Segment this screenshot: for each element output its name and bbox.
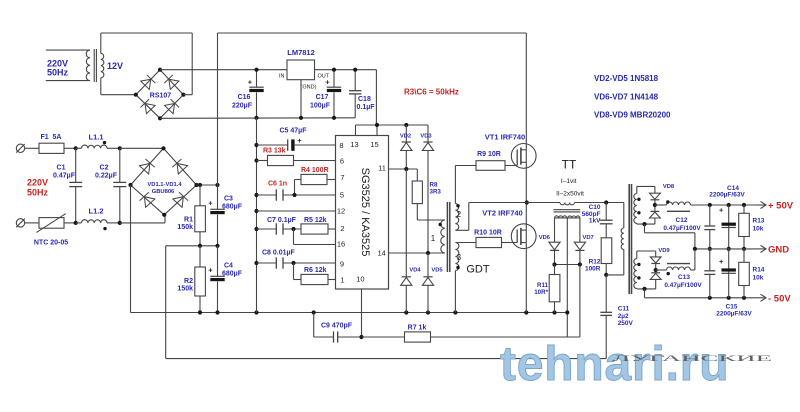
wire T1 secondary top loop xyxy=(100,33,102,53)
resistor R9 10R xyxy=(476,161,505,171)
svg-text:9: 9 xyxy=(340,260,344,269)
svg-text:R10 10R: R10 10R xyxy=(474,230,502,237)
main transformer primary coil xyxy=(621,228,624,249)
svg-text:LM7812: LM7812 xyxy=(287,48,315,57)
node C3-C4 midpoint xyxy=(166,245,218,247)
transistor VT1 IRF740 xyxy=(511,144,536,169)
svg-text:50Hz: 50Hz xyxy=(27,188,49,198)
svg-text:8: 8 xyxy=(339,141,343,150)
svg-text:VD5: VD5 xyxy=(431,268,443,274)
capacitor C17 100uF xyxy=(333,70,335,88)
svg-text:100µF: 100µF xyxy=(310,103,331,110)
wire winding3 bottom to rail xyxy=(454,271,456,313)
svg-text:C4: C4 xyxy=(224,263,233,270)
svg-text:VD8: VD8 xyxy=(663,184,675,190)
svg-text:0.1µF: 0.1µF xyxy=(357,104,376,111)
wire VT2 drain to midpoint xyxy=(525,203,527,224)
svg-text:C11: C11 xyxy=(618,306,630,313)
wire lower winding bottom lead xyxy=(636,288,638,290)
resistor R13 10k xyxy=(743,205,745,213)
wire pin14 line xyxy=(389,252,445,254)
wire T1 secondary bottom xyxy=(100,78,102,95)
svg-text:220V: 220V xyxy=(27,178,48,188)
resistor R5 12k xyxy=(301,224,328,234)
svg-text:+: + xyxy=(719,257,724,266)
svg-text:C8 0.01µF: C8 0.01µF xyxy=(262,250,296,257)
svg-text:F1 5A: F1 5A xyxy=(40,134,61,141)
svg-text:15: 15 xyxy=(370,140,378,149)
wire VT1 source to midpoint xyxy=(525,168,527,202)
svg-text:1: 1 xyxy=(431,234,436,243)
svg-text:6: 6 xyxy=(340,157,344,166)
svg-text:2200µF/63V: 2200µF/63V xyxy=(716,311,752,318)
svg-text:12V: 12V xyxy=(107,61,123,71)
wire midpoint right xyxy=(527,202,560,204)
wire minus50 rail xyxy=(644,289,646,298)
regulator U2 LM7812 xyxy=(287,60,315,80)
thermistor NTC 20-05 xyxy=(39,218,64,229)
diode VD7 xyxy=(574,242,585,250)
TT primary winding xyxy=(560,203,575,205)
diode VD2 xyxy=(405,125,407,142)
capacitor C4 680uF xyxy=(217,246,219,276)
wire VT2 source to rail xyxy=(525,249,527,313)
diode VD6 xyxy=(549,242,560,250)
wire top rail xyxy=(218,32,527,34)
wire GBU minus down xyxy=(130,185,132,313)
svg-text:C2: C2 xyxy=(100,165,109,172)
transistor VT2 IRF740 xyxy=(511,224,536,249)
main transformer primary lead xyxy=(623,203,625,229)
bridge RS107 corner dots xyxy=(158,68,162,72)
bridge RS107 diamond xyxy=(136,70,160,95)
svg-text:- 50V: - 50V xyxy=(768,294,791,305)
svg-text:VD7: VD7 xyxy=(583,235,594,241)
svg-text:5: 5 xyxy=(340,191,344,200)
arrow GND xyxy=(756,248,766,250)
resistor R14 10k xyxy=(743,249,745,262)
svg-text:C16: C16 xyxy=(238,94,251,101)
main transformer core xyxy=(628,184,630,294)
svg-text:R5 12k: R5 12k xyxy=(304,217,327,224)
svg-text:R2: R2 xyxy=(184,278,193,285)
resistor R2 150k xyxy=(199,246,201,267)
wire pin12 to bus xyxy=(254,209,258,213)
choke upper xyxy=(655,204,667,206)
svg-text:0.47µF/100V: 0.47µF/100V xyxy=(664,282,702,289)
wire Vcc line xyxy=(356,124,429,126)
svg-text:C13: C13 xyxy=(678,274,690,281)
wire lower winding top lead xyxy=(636,251,638,259)
svg-text:VD2-VD5 1N5818: VD2-VD5 1N5818 xyxy=(594,74,659,83)
resistor R12 100R xyxy=(601,238,612,264)
svg-text:VD1.1-VD1.4: VD1.1-VD1.4 xyxy=(147,182,182,188)
svg-text:ЛУГАНСКИЕ: ЛУГАНСКИЕ xyxy=(612,354,772,363)
svg-text:+: + xyxy=(208,266,213,275)
wire pin15 stub xyxy=(376,125,378,136)
svg-text:GND: GND xyxy=(768,245,789,256)
arrow plus50 xyxy=(756,204,766,206)
wire aux ground bus xyxy=(160,117,355,120)
wire Vcc drop to IC xyxy=(375,70,377,125)
wire VD6-VD7 junction xyxy=(555,264,580,266)
wire primary negative rail xyxy=(131,312,568,314)
wire C11 return riser xyxy=(165,246,167,359)
svg-text:GBU806: GBU806 xyxy=(152,189,175,195)
wire LM7812 GND lead xyxy=(300,80,302,118)
svg-text:50Hz: 50Hz xyxy=(47,68,69,78)
capacitor C16 220uF xyxy=(256,70,258,88)
svg-text:II–2x50vit: II–2x50vit xyxy=(556,191,584,198)
svg-text:150k: 150k xyxy=(177,224,193,231)
svg-text:0.47µF/100V: 0.47µF/100V xyxy=(663,225,701,232)
bridge RS107 diode bottom-left xyxy=(145,104,155,114)
svg-text:VD6: VD6 xyxy=(539,235,551,241)
diode VD8 upper xyxy=(650,193,661,199)
GDT winding 3 xyxy=(455,243,459,271)
bridge VD1 corner dots xyxy=(161,146,165,150)
svg-text:C7 0.1µF: C7 0.1µF xyxy=(267,217,297,224)
resistor R10 10R xyxy=(476,237,502,247)
capacitor C13 0.47uF xyxy=(709,249,711,271)
resistor R7 1k xyxy=(405,332,431,342)
svg-text:GDT: GDT xyxy=(466,264,490,276)
svg-text:2200µF/63V: 2200µF/63V xyxy=(709,192,745,199)
TT secondary winding xyxy=(555,217,580,219)
wire winding2 bottom to midpoint xyxy=(455,229,468,231)
svg-text:680µF: 680µF xyxy=(222,204,243,211)
svg-text:2µ2: 2µ2 xyxy=(618,313,629,320)
capacitor C18 0.1uF xyxy=(354,70,356,91)
svg-text:L1.2: L1.2 xyxy=(88,207,103,216)
bridge VD1 GBU806 diamond xyxy=(131,148,164,185)
svg-text:R7 1k: R7 1k xyxy=(408,325,427,332)
wire TT sec left lead xyxy=(554,218,556,242)
wire L1.2 to bridge xyxy=(107,222,120,224)
svg-text:250V: 250V xyxy=(618,320,634,327)
svg-text:C12: C12 xyxy=(676,217,688,224)
svg-text:I–1vit: I–1vit xyxy=(561,178,577,185)
svg-text:C9 470pF: C9 470pF xyxy=(321,323,353,330)
wire HV bus vertical xyxy=(217,33,219,209)
bridge RS107 diode top-left xyxy=(141,79,151,89)
diode VD9 upper xyxy=(650,257,661,263)
transformer T1 primary coil xyxy=(86,50,90,81)
svg-text:R13: R13 xyxy=(753,218,765,225)
svg-text:VD9: VD9 xyxy=(658,248,670,254)
inductor L1.2 xyxy=(76,222,82,224)
capacitor C12 0.47uF xyxy=(709,205,711,226)
wire RS107 plus to LM7812 IN xyxy=(160,69,287,71)
wire LM7812 OUT xyxy=(315,69,377,71)
wire winding3 top to R10 xyxy=(455,242,476,244)
diode VD8 lower xyxy=(654,205,656,211)
capacitor C7 0.1uF xyxy=(254,227,258,231)
wire VT1 drain drop xyxy=(525,33,527,144)
capacitor C3 680uF xyxy=(210,208,224,210)
resistor R8 3R3 xyxy=(412,181,422,204)
svg-text:R4 100R: R4 100R xyxy=(301,167,329,174)
svg-text:2: 2 xyxy=(340,224,344,233)
wire GND rail xyxy=(695,248,756,250)
svg-text:(GND): (GND) xyxy=(301,85,317,91)
fuse F1 xyxy=(39,143,64,153)
terminal input neutral xyxy=(16,219,24,227)
svg-text:IN: IN xyxy=(279,74,285,80)
op-amp U1 SG3525 body xyxy=(336,136,389,290)
wire NTC to L1.2 xyxy=(64,222,76,224)
wire choke lower to GND xyxy=(691,269,695,271)
capacitor C2 0.22uF xyxy=(119,148,121,182)
svg-text:C5 47µF: C5 47µF xyxy=(280,128,308,135)
svg-text:VT1 IRF740: VT1 IRF740 xyxy=(485,133,525,142)
svg-text:+: + xyxy=(719,206,724,215)
svg-text:+ 50V: + 50V xyxy=(768,201,794,212)
wire upper snubber tap xyxy=(644,224,646,233)
wire upper winding bottom lead xyxy=(636,222,638,225)
svg-text:NTC 20-05: NTC 20-05 xyxy=(34,240,68,247)
output winding lower xyxy=(634,259,637,289)
svg-text:SG3525 / KA3525: SG3525 / KA3525 xyxy=(359,168,371,257)
svg-text:VT2 IRF740: VT2 IRF740 xyxy=(482,209,522,218)
diode VD9 lower xyxy=(655,270,657,272)
terminal input line xyxy=(16,144,24,152)
resistor R11 10R* xyxy=(554,265,556,275)
wire GBU plus to bus xyxy=(197,184,218,186)
svg-text:10R*: 10R* xyxy=(534,289,548,296)
bridge VD1 diode top-right xyxy=(177,163,187,174)
wire bias bus xyxy=(256,118,258,313)
wire pin1 tap xyxy=(293,263,295,280)
svg-text:VD6-VD7 1N4148: VD6-VD7 1N4148 xyxy=(594,93,659,102)
wire pin10 drop xyxy=(361,289,363,337)
capacitor C5 47uF xyxy=(254,143,258,147)
node VD9 junction xyxy=(654,268,658,272)
wire pin13 stub xyxy=(355,125,357,136)
wire loop right side xyxy=(191,33,193,95)
svg-text:C15: C15 xyxy=(726,304,738,311)
capacitor C1 0.47uF xyxy=(75,148,77,182)
svg-text:VD8-VD9 MBR20200: VD8-VD9 MBR20200 xyxy=(594,111,671,120)
svg-text:10k: 10k xyxy=(753,275,764,282)
capacitor C9 470pF xyxy=(313,313,315,338)
capacitor C6 1n xyxy=(254,193,258,197)
svg-text:1kV: 1kV xyxy=(589,217,601,224)
svg-text:tehnari.ru: tehnari.ru xyxy=(500,338,729,391)
capacitor C10 560pF xyxy=(605,203,607,221)
capacitor C11 2u2 250V xyxy=(605,275,607,312)
wire plus50 rail xyxy=(691,204,757,206)
svg-text:220µF: 220µF xyxy=(232,103,253,110)
bridge RS107 diode bottom-right xyxy=(165,104,175,114)
diode VD5 xyxy=(427,253,429,276)
svg-text:16: 16 xyxy=(337,240,345,249)
capacitor C8 0.01uF xyxy=(254,261,258,265)
svg-text:11: 11 xyxy=(378,164,386,173)
svg-text:2: 2 xyxy=(457,210,462,219)
wire C11 return bottom xyxy=(166,358,607,360)
svg-text:C18: C18 xyxy=(358,96,371,103)
resistor R6 12k xyxy=(301,274,328,284)
wire winding2 top to R9 xyxy=(454,166,456,204)
transformer GDT core xyxy=(446,202,448,272)
diode VD3 xyxy=(427,125,429,142)
svg-text:+: + xyxy=(325,78,330,87)
wire midpoint left xyxy=(469,202,527,204)
svg-text:VD3: VD3 xyxy=(420,133,432,139)
arrow minus50 xyxy=(756,297,766,299)
svg-text:3: 3 xyxy=(457,253,462,262)
svg-text:C6 1n: C6 1n xyxy=(268,181,287,188)
choke lower xyxy=(656,269,667,271)
svg-text:+: + xyxy=(208,199,213,208)
inductor L1.1 xyxy=(76,147,82,149)
wire L1.1 to bridge xyxy=(107,147,120,149)
wire pin16 tap xyxy=(293,229,295,245)
svg-text:R9 10R: R9 10R xyxy=(477,151,501,158)
TT core xyxy=(554,209,581,211)
GDT winding 1 xyxy=(441,220,445,253)
svg-text:C3: C3 xyxy=(224,196,233,203)
svg-text:R8: R8 xyxy=(430,182,438,189)
svg-text:10k: 10k xyxy=(753,226,764,233)
capacitor C14 2200uF xyxy=(728,205,730,228)
svg-text:R3 13k: R3 13k xyxy=(263,148,286,155)
svg-text:TT: TT xyxy=(562,158,577,172)
bridge VD1 diode bottom-left xyxy=(144,197,155,208)
svg-text:14: 14 xyxy=(378,248,386,257)
svg-text:12: 12 xyxy=(337,207,345,216)
svg-text:+: + xyxy=(297,136,302,145)
wire VD7 to R7 line xyxy=(579,265,581,338)
svg-text:680µF: 680µF xyxy=(222,271,243,278)
svg-text:100R: 100R xyxy=(585,266,601,273)
capacitor C15 2200uF xyxy=(728,249,730,273)
svg-text:VD4: VD4 xyxy=(409,268,421,274)
svg-text:C1: C1 xyxy=(57,165,66,172)
svg-text:150k: 150k xyxy=(177,286,193,293)
svg-text:VD2: VD2 xyxy=(400,133,411,139)
svg-text:R11: R11 xyxy=(537,282,549,289)
svg-text:1: 1 xyxy=(340,276,344,285)
output winding upper xyxy=(634,194,637,224)
transformer T1 primary leads xyxy=(46,49,90,51)
wire RS107 right corner xyxy=(183,94,192,96)
svg-text:0.47µF: 0.47µF xyxy=(53,173,76,180)
svg-text:RS107: RS107 xyxy=(150,93,172,100)
svg-text:R14: R14 xyxy=(753,267,765,274)
svg-text:10: 10 xyxy=(356,274,364,283)
resistor R3 13k xyxy=(254,158,258,162)
transformer T1 core xyxy=(93,49,95,82)
wire pin11 line xyxy=(389,168,418,170)
resistor R4 100R xyxy=(301,174,327,184)
svg-text:3R3: 3R3 xyxy=(430,189,442,196)
wire upper winding top lead xyxy=(636,186,638,193)
svg-text:R3\C6 = 50kHz: R3\C6 = 50kHz xyxy=(404,88,459,97)
wire TT primary out xyxy=(575,202,624,204)
GDT winding 2 xyxy=(455,204,458,231)
svg-text:R1: R1 xyxy=(184,217,193,224)
wire primary bottom xyxy=(623,249,625,275)
svg-text:L1.1: L1.1 xyxy=(88,133,103,142)
node half-bridge midpoint xyxy=(525,200,529,204)
svg-text:C17: C17 xyxy=(316,94,329,101)
transformer T1 secondary coil xyxy=(101,53,104,78)
resistor R1 150k xyxy=(199,185,201,206)
svg-text:0.22µF: 0.22µF xyxy=(95,173,118,180)
wire TT center tap xyxy=(566,218,568,337)
svg-text:+: + xyxy=(248,78,253,87)
bridge VD1 diode top-left xyxy=(140,163,150,174)
node VD8 cathode junction xyxy=(653,203,657,207)
wire TT sec right lead xyxy=(579,218,581,242)
svg-text:13: 13 xyxy=(350,140,358,149)
diode VD4 xyxy=(405,169,407,276)
bridge RS107 diode top-right xyxy=(169,79,179,89)
svg-text:R6 12k: R6 12k xyxy=(304,267,327,274)
svg-text:R12: R12 xyxy=(589,259,601,266)
bridge VD1 diode bottom-right xyxy=(173,197,184,208)
svg-text:7: 7 xyxy=(340,173,344,182)
